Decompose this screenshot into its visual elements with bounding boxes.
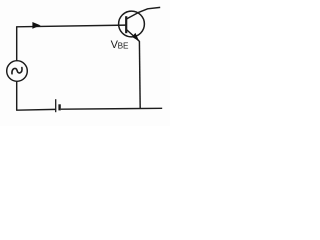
svg-text:BE: BE (118, 41, 129, 50)
ac source (sine-wave generator) (7, 61, 28, 82)
battery B1 (56, 99, 60, 112)
wire: bottom left to battery (16, 108, 55, 111)
wire: emitter lead down (138, 41, 141, 109)
wire: top horizontal to transistor base (16, 25, 126, 27)
wire: collector lead to top right (138, 7, 160, 12)
wire: source top to corner (16, 27, 18, 61)
current direction arrow (32, 22, 40, 29)
transistor Q1 (NPN) (119, 11, 145, 41)
wire: battery to emitter (61, 107, 162, 110)
label VBE (111, 39, 129, 51)
wire: source bottom (16, 81, 18, 110)
